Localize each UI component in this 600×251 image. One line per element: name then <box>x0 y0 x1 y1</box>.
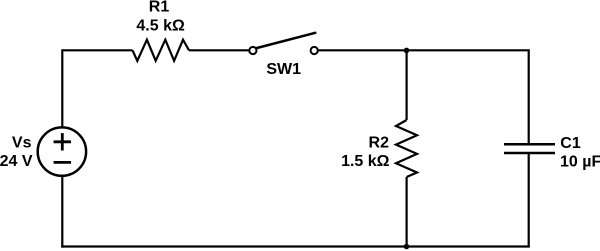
wire R2 to bottom node B <box>406 177 408 247</box>
svg-text:C1: C1 <box>560 135 581 152</box>
wire left vertical top (corner to source) <box>61 49 63 127</box>
svg-text:R1: R1 <box>149 0 170 16</box>
wire R1 to SW1 <box>189 49 249 51</box>
svg-text:Vs: Vs <box>12 135 32 152</box>
minus sign <box>54 161 71 164</box>
node A junction dot <box>404 48 410 54</box>
resistor R1 <box>133 40 190 61</box>
svg-text:10 µF: 10 µF <box>560 154 600 171</box>
voltage source Vs <box>38 127 86 175</box>
capacitor C1 bottom plate <box>504 152 555 155</box>
wire SW1 to node A <box>318 49 406 51</box>
wire node A down to R2 <box>406 50 408 120</box>
capacitor C1 top plate <box>504 143 555 146</box>
switch SW1 arm <box>257 33 315 48</box>
wire left vertical bottom (source to corner) <box>61 176 63 248</box>
bottom wire <box>61 245 530 247</box>
plus sign <box>54 133 71 150</box>
wire right vertical top (to C1) <box>528 49 530 144</box>
svg-text:R2: R2 <box>369 135 390 152</box>
node B junction dot <box>404 244 410 250</box>
svg-text:SW1: SW1 <box>266 61 301 78</box>
wire node A to top right corner <box>407 49 529 51</box>
wire top left (source to R1) <box>62 49 132 51</box>
resistor R2 <box>396 120 417 177</box>
wire C1 to bottom right corner <box>528 153 530 246</box>
switch SW1 right contact <box>311 47 318 54</box>
svg-text:4.5 kΩ: 4.5 kΩ <box>136 18 185 35</box>
svg-text:24 V: 24 V <box>0 153 33 170</box>
switch SW1 left contact <box>249 47 256 54</box>
svg-text:1.5 kΩ: 1.5 kΩ <box>341 153 390 170</box>
